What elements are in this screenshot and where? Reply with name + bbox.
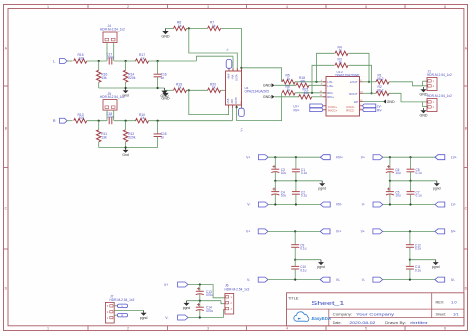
capacitor C1 0.1u: [295, 157, 297, 169]
svg-text:1k: 1k: [339, 61, 343, 65]
wire J5 pin1 to ch2 wire: [106, 110, 108, 121]
svg-text:RVCC+: RVCC+: [328, 109, 338, 113]
svg-text:1k: 1k: [212, 86, 216, 90]
wire bottom rail: [268, 279, 320, 281]
svg-text:RVCC-: RVCC-: [346, 109, 355, 113]
port RV+ top right: [320, 155, 330, 160]
ground pgnd: [320, 260, 322, 262]
svg-text:-INB: -INB: [231, 99, 234, 104]
capacitor C12 0.1u: [409, 231, 411, 244]
wire GND flag to R18: [275, 84, 297, 86]
net port RV+ pill: [310, 108, 323, 112]
svg-text:1: 1: [47, 5, 49, 9]
svg-text:lV-: lV-: [451, 278, 455, 282]
svg-text:5: 5: [365, 5, 367, 9]
ground flag GND LIN+: [272, 83, 275, 87]
border column ticks top: [87, 5, 89, 9]
svg-text:EasyEDA: EasyEDA: [312, 316, 331, 321]
U1 right pin stubs: [360, 81, 363, 83]
svg-text:RV-: RV-: [377, 108, 382, 112]
svg-text:100: 100: [79, 116, 85, 120]
svg-text:6: 6: [444, 327, 446, 331]
svg-text:10u: 10u: [395, 194, 401, 198]
wire J2 pin2 jog: [422, 102, 424, 107]
svg-text:1k: 1k: [339, 49, 343, 53]
node R4 to LOUT: [368, 81, 370, 83]
wire mid to pgnd: [295, 259, 321, 261]
wire R15 to C17: [87, 60, 107, 62]
svg-text:1k: 1k: [141, 56, 145, 60]
svg-text:OUTA: OUTA: [236, 74, 239, 81]
svg-text:V-: V-: [165, 316, 168, 320]
svg-text:1k: 1k: [178, 24, 182, 28]
svg-text:6: 6: [444, 5, 446, 9]
svg-text:2: 2: [127, 327, 129, 331]
ground GND J1: [423, 87, 425, 89]
svg-text:HDR-M-2.54_1x2: HDR-M-2.54_1x2: [427, 73, 452, 77]
wire J4 pin2 to ch1 wire: [113, 43, 115, 62]
wire J7 pin3 to port: [114, 305, 117, 307]
wire EP to GND flag: [363, 101, 383, 103]
svg-text:1k: 1k: [141, 116, 145, 120]
svg-text:B: B: [465, 126, 467, 130]
wire R18 to LIN+: [309, 84, 326, 86]
wire mid rail to J6 pin2: [221, 301, 225, 304]
node OUTA branch: [240, 67, 242, 69]
net port L out pill: [118, 304, 128, 307]
node rail C16: [157, 87, 159, 89]
svg-text:2: 2: [127, 5, 129, 9]
resistor R7 1k: [208, 26, 221, 30]
wire V+ to J6 pin1: [188, 285, 225, 298]
resistor R2 38.2: [376, 91, 389, 95]
ground pgnd bank: [321, 181, 323, 183]
svg-text:100: 100: [79, 56, 85, 60]
node bot c1: [274, 203, 276, 205]
svg-text:1/1: 1/1: [453, 312, 459, 317]
wire LOUT to R1: [363, 81, 376, 83]
EasyEDA logo: [294, 312, 309, 322]
net port LV+ pill: [310, 104, 323, 108]
resistor R21 40k: [299, 95, 312, 99]
svg-text:0.1u: 0.1u: [301, 194, 307, 198]
port lV+ top right: [435, 229, 445, 234]
svg-text:+INB: +INB: [227, 98, 230, 104]
svg-text:TITLE:: TITLE:: [288, 296, 299, 300]
capacitor C15 1n vertical: [157, 121, 159, 134]
title block frame: [287, 293, 464, 326]
wire J7 pin2 to pgnd: [114, 310, 143, 312]
svg-text:Your Company: Your Company: [356, 312, 394, 317]
svg-text:40k: 40k: [304, 91, 310, 95]
node top c2: [295, 156, 297, 158]
svg-text:HDR-M-2.54_1x2: HDR-M-2.54_1x2: [427, 94, 452, 98]
U4 bottom pin stubs: [228, 105, 230, 108]
svg-text:1k: 1k: [212, 24, 216, 28]
svg-text:Drawn By:: Drawn By:: [385, 321, 406, 325]
node R3 to ROUT: [370, 92, 372, 94]
svg-text:GND: GND: [161, 96, 170, 100]
svg-text:10u: 10u: [395, 171, 401, 175]
wire feedback B loop: [189, 90, 229, 114]
capacitor C10 0.1u: [294, 260, 296, 267]
border row ticks right: [464, 85, 468, 87]
svg-text:OUTB: OUTB: [235, 97, 238, 104]
port RV- bottom right: [320, 202, 330, 207]
svg-text:B: B: [5, 126, 7, 130]
svg-text:1: 1: [47, 327, 49, 331]
wire R7 to OUTA: [221, 28, 242, 71]
node ch2 R11 junction: [98, 120, 100, 122]
wire top rail: [383, 156, 435, 158]
svg-text:V+: V+: [246, 230, 250, 234]
node mid c2: [409, 180, 411, 182]
svg-text:HDR-M-2.54_1x3: HDR-M-2.54_1x3: [225, 288, 250, 292]
ground GND R19: [165, 90, 167, 93]
node top cap: [409, 230, 411, 232]
ground pgnd: [435, 260, 437, 262]
wire GND to R6: [166, 27, 174, 29]
svg-text:V-: V-: [362, 203, 365, 207]
capacitor C8 0.1u: [410, 157, 412, 169]
U1 left pin stubs: [323, 81, 326, 83]
ground pgnd J7: [143, 311, 145, 313]
capacitor C7 0.1u: [410, 181, 412, 192]
svg-text:pgnd: pgnd: [433, 186, 441, 190]
svg-text:10u: 10u: [281, 194, 287, 198]
svg-text:V-: V-: [226, 48, 230, 51]
port LV- bottom right: [435, 202, 445, 207]
svg-text:10u: 10u: [281, 171, 287, 175]
svg-text:HDR-M-2.54_1x2: HDR-M-2.54_1x2: [100, 95, 125, 99]
svg-text:pgnd: pgnd: [140, 316, 148, 320]
svg-text:V-: V-: [247, 278, 250, 282]
port lV- bottom right: [320, 277, 330, 282]
wire GND flag to R21: [275, 96, 300, 98]
svg-text:GND: GND: [420, 114, 428, 118]
wire ch2 bottom rail: [99, 147, 158, 149]
title block divider vertical REV: [431, 293, 433, 318]
node ch1 C16 junction: [157, 60, 159, 62]
node ch2 R12 junction: [125, 120, 127, 122]
svg-text:0.1u: 0.1u: [301, 171, 307, 175]
border column ticks bottom: [87, 326, 89, 331]
svg-text:LV-: LV-: [451, 203, 456, 207]
svg-text:38.2: 38.2: [377, 88, 384, 92]
svg-text:Gnd: Gnd: [122, 153, 129, 157]
svg-text:220k: 220k: [128, 135, 136, 139]
wire ROUT to R2: [363, 92, 376, 94]
resistor R5 1k: [282, 80, 295, 84]
svg-text:470u: 470u: [206, 309, 213, 313]
resistor R15 100: [74, 59, 87, 63]
ground GND ch1 right: [164, 88, 166, 91]
svg-text:470u: 470u: [206, 293, 213, 297]
svg-text:Company:: Company:: [333, 313, 352, 317]
node mid: [294, 259, 296, 261]
resistor R17 1k: [136, 59, 149, 63]
svg-text:0.1u: 0.1u: [416, 171, 422, 175]
wire top rail: [268, 156, 320, 158]
wire into +INB pin: [231, 108, 233, 120]
capacitor C2 0.1u: [295, 181, 297, 192]
svg-text:3: 3: [207, 5, 209, 9]
wire bottom rail: [383, 279, 435, 281]
node mid c2: [295, 180, 297, 182]
svg-text:OPA2134UA/2K5: OPA2134UA/2K5: [245, 90, 270, 94]
capacitor C4 10u: [274, 181, 276, 192]
node ch1 R14 junction: [125, 60, 127, 62]
capacitor C18 100n: [108, 117, 110, 124]
svg-text:2020-08-02: 2020-08-02: [349, 320, 376, 325]
wire bottom rail: [383, 204, 435, 206]
wire R9 to RIN-: [295, 92, 326, 94]
svg-text:pgnd: pgnd: [317, 265, 325, 269]
node rail R14: [125, 87, 127, 89]
svg-text:4: 4: [286, 5, 288, 9]
svg-text:13k: 13k: [101, 76, 107, 80]
svg-text:V+: V+: [164, 283, 168, 287]
port LV+ top right: [435, 155, 445, 160]
node top cap: [294, 230, 296, 232]
resistor R13 100: [74, 119, 87, 123]
title block divider horizontal 2: [329, 317, 464, 319]
ground flag GND EP: [383, 100, 386, 104]
svg-text:40k: 40k: [300, 79, 306, 83]
svg-text:LV+: LV+: [451, 155, 457, 159]
capacitor C16 1n vertical: [157, 61, 159, 74]
wire top rail: [383, 230, 435, 232]
resistor R9 1k: [282, 91, 295, 95]
node mid c1: [274, 180, 276, 182]
wire J7 pin1 to port: [114, 314, 117, 316]
ground pgnd bank: [436, 181, 438, 183]
svg-text:R: R: [53, 118, 56, 123]
svg-text:0.1u: 0.1u: [300, 247, 306, 251]
svg-text:Sheet_1: Sheet_1: [311, 301, 344, 307]
resistor R10 1k: [136, 119, 149, 123]
resistor R4 1k feedback: [317, 53, 335, 82]
wire J5 pin2 to ch2 wire: [113, 110, 115, 121]
wire C17 to R17: [114, 60, 136, 62]
port lV+ top right: [320, 229, 330, 234]
resistor R16 13k vertical: [98, 61, 100, 70]
wire R6 to R7: [186, 27, 207, 29]
node C14 bottom: [199, 316, 201, 318]
svg-text:HDR-M-2.54_1x3: HDR-M-2.54_1x3: [110, 298, 135, 302]
wire R13 to C18: [87, 120, 107, 122]
svg-text:GND: GND: [263, 84, 271, 88]
node C13 bottom: [199, 300, 201, 302]
ground GND J2: [423, 108, 425, 110]
net port V+ pill below U4: [239, 108, 245, 116]
node ch1 R16 junction: [98, 60, 100, 62]
wire R20 to -INB left pin: [221, 89, 226, 91]
node R3 feedback junction: [311, 92, 313, 94]
wire R2 to J2: [389, 93, 428, 102]
wire mid rail power: [187, 300, 222, 302]
resistor R1 38.2: [376, 80, 389, 84]
capacitor C13 470u: [199, 285, 201, 292]
net port LV- pill: [363, 104, 376, 108]
ground Gnd ch1 rail: [125, 88, 127, 90]
svg-text:RIN+: RIN+: [327, 95, 334, 99]
node top c2: [409, 156, 411, 158]
node R4 feedback junction: [315, 81, 317, 83]
resistor R3 1k feedback: [312, 65, 335, 93]
capacitor C14 470u: [199, 301, 201, 308]
svg-text:5: 5: [365, 327, 367, 331]
svg-text:RV+: RV+: [336, 155, 343, 159]
svg-text:RV-: RV-: [336, 203, 342, 207]
resistor R18 40k: [296, 83, 309, 87]
node ch2 C15 junction: [157, 120, 159, 122]
svg-text:1.0: 1.0: [451, 299, 457, 304]
svg-text:GND: GND: [387, 100, 395, 104]
wire R19 to R20: [186, 89, 207, 91]
op-amp U4 OPA2134UA/2K5 body: [226, 71, 242, 105]
svg-text:lV-: lV-: [336, 278, 340, 282]
resistor R20 1k: [208, 88, 221, 92]
svg-text:0.1u: 0.1u: [415, 247, 421, 251]
node bot c2: [409, 203, 411, 205]
svg-text:-INA: -INA: [231, 74, 234, 79]
node C13 top: [199, 283, 201, 285]
node feedback A junction: [188, 27, 190, 29]
wire mid rail: [390, 180, 437, 182]
title block divider horizontal 1: [287, 308, 464, 310]
svg-text:Sheet:: Sheet:: [436, 313, 447, 317]
wire R port to R13: [67, 120, 72, 122]
node mid c1: [389, 180, 391, 182]
node bot cap: [409, 279, 411, 281]
svg-text:V-: V-: [247, 203, 250, 207]
capacitor C6 10u: [389, 157, 391, 169]
node bot c2: [295, 203, 297, 205]
svg-text:1k: 1k: [287, 77, 291, 81]
U4 top pin stubs: [228, 68, 230, 71]
svg-text:GND: GND: [161, 35, 170, 39]
wire V- to J6 pin3: [188, 310, 225, 318]
resistor R12 220k vertical: [125, 121, 127, 130]
svg-text:HDR-M-2.54_1x2: HDR-M-2.54_1x2: [100, 28, 125, 32]
capacitor C17 100n: [108, 58, 110, 65]
svg-text:1k: 1k: [287, 88, 291, 92]
svg-text:1n: 1n: [161, 76, 165, 80]
svg-text:LOUT: LOUT: [350, 80, 358, 84]
net port V- pill above U4: [226, 60, 232, 69]
ground GND R6: [165, 28, 167, 31]
wire feedback A to -INA: [189, 28, 238, 71]
wire OUTA branch to R5: [241, 68, 281, 82]
svg-text:V+: V+: [361, 155, 365, 159]
wire J4 pin1 to ch1 wire: [106, 43, 108, 62]
wire R5 to LIN-: [295, 81, 326, 83]
title block divider vertical logo: [328, 309, 330, 326]
wire OUTB branch to R9: [237, 93, 282, 121]
wire R17 to opamp +INA: [149, 60, 197, 62]
ground pgnd power: [186, 301, 188, 303]
ground Gnd ch2 rail: [125, 148, 127, 150]
svg-text:V+: V+: [246, 155, 250, 159]
svg-text:REV:: REV:: [436, 300, 445, 304]
svg-text:1k: 1k: [178, 86, 182, 90]
svg-text:EP: EP: [354, 100, 358, 104]
svg-text:0.1u: 0.1u: [300, 268, 306, 272]
svg-text:LIN+: LIN+: [327, 84, 333, 88]
svg-text:lV+: lV+: [451, 230, 456, 234]
svg-text:13k: 13k: [101, 135, 107, 139]
capacitor C3 10u: [274, 157, 276, 169]
resistor R11 13k vertical: [98, 121, 100, 130]
svg-text:0.1u: 0.1u: [416, 194, 422, 198]
wire ch1 bottom rail: [99, 87, 165, 89]
svg-text:R: R: [121, 313, 123, 317]
svg-text:220k: 220k: [128, 76, 136, 80]
wire J1 pin1 jog: [422, 81, 424, 86]
wire jog up: [196, 56, 233, 61]
wire L port to R15: [67, 60, 72, 62]
svg-text:3: 3: [207, 327, 209, 331]
amplifier U1.2 TPA6120A2DWP body: [326, 77, 360, 117]
node top c1: [389, 156, 391, 158]
wire R10 to opamp +INB: [149, 120, 233, 122]
port lV- bottom right: [435, 277, 445, 282]
wire bottom rail: [268, 204, 320, 206]
wire into +INA pin: [232, 56, 234, 71]
wire mid rail: [275, 180, 322, 182]
node bot c1: [389, 203, 391, 205]
svg-text:4: 4: [286, 327, 288, 331]
svg-text:V+: V+: [240, 128, 244, 132]
wire R1 to J1: [389, 82, 428, 86]
svg-text:CVCC+: CVCC+: [328, 105, 338, 109]
svg-text:RV+: RV+: [294, 108, 300, 112]
svg-text:TPA6120A2DWP: TPA6120A2DWP: [335, 73, 359, 77]
svg-text:lV+: lV+: [336, 230, 341, 234]
svg-text:V+: V+: [361, 230, 365, 234]
svg-text:ROUT: ROUT: [349, 92, 357, 96]
svg-text:rbrtltnr: rbrtltnr: [410, 320, 429, 325]
svg-text:pgnd: pgnd: [318, 186, 326, 190]
svg-text:CVCC-: CVCC-: [346, 105, 355, 109]
svg-text:V-: V-: [362, 278, 365, 282]
node rail2 R12: [125, 146, 127, 148]
node bot cap: [294, 279, 296, 281]
capacitor C11 0.1u: [409, 260, 411, 267]
wire C18 to R10: [114, 120, 136, 122]
border row ticks left: [4, 85, 9, 87]
svg-text:Date:: Date:: [333, 321, 342, 325]
ground flag GND RIN+: [272, 95, 275, 99]
capacitor C5 10u: [389, 181, 391, 192]
svg-text:GND: GND: [263, 95, 271, 99]
node top c1: [274, 156, 276, 158]
wire R21 to RIN+: [312, 96, 327, 98]
node feedback B junction: [188, 89, 190, 91]
svg-text:0.1u: 0.1u: [415, 268, 421, 272]
net port R out pill: [118, 314, 128, 317]
wire top rail: [268, 230, 320, 232]
node mid: [409, 259, 411, 261]
net port RV- pill: [363, 108, 376, 112]
svg-text:38.2: 38.2: [377, 77, 384, 81]
svg-text:1n: 1n: [161, 135, 165, 139]
node OUTB branch: [236, 106, 238, 108]
resistor R6 1k: [174, 26, 187, 30]
wire mid to pgnd: [410, 259, 436, 261]
capacitor C9 0.1u: [294, 231, 296, 244]
